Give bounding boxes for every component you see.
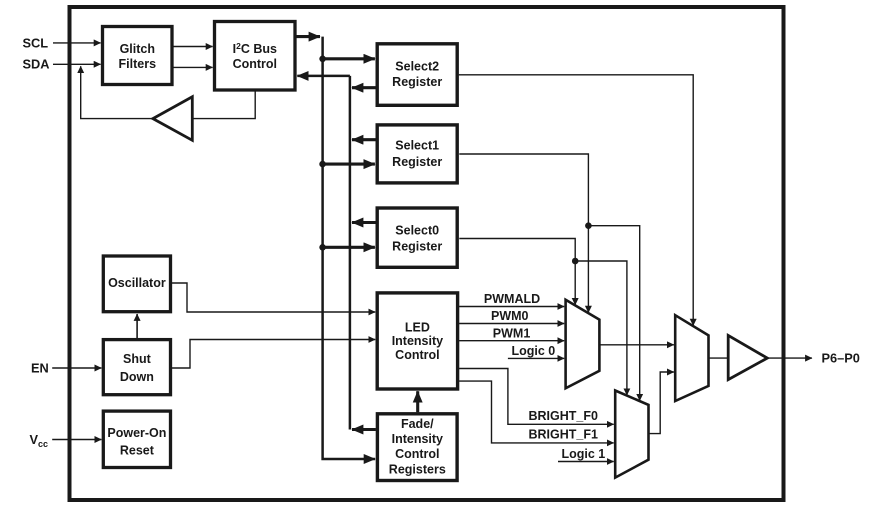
- wire buffer to SDA line: [81, 66, 153, 118]
- svg-text:Filters: Filters: [119, 57, 157, 71]
- svg-text:Shut: Shut: [123, 352, 152, 366]
- svg-text:LED: LED: [405, 320, 430, 334]
- wire Select1 branch to mux2: [588, 226, 639, 401]
- wire bus2 into I2C: [297, 75, 350, 78]
- block Shut Down: [103, 340, 170, 395]
- wire mux2 to mux3: [649, 372, 674, 434]
- wire BRIGHT_F1: [459, 381, 614, 443]
- block Power-On Reset: [103, 411, 170, 467]
- output buffer: [728, 335, 767, 379]
- node P6-P0 label: [822, 351, 860, 366]
- wire Oscillator to LED Intensity: [172, 283, 375, 312]
- svg-text:Fade/: Fade/: [401, 417, 434, 431]
- mux2 (brightness select): [615, 391, 648, 478]
- svg-text:Reset: Reset: [120, 443, 155, 457]
- node BRIGHT_F1 label: [529, 428, 599, 442]
- wire SDA input: [53, 63, 101, 65]
- svg-text:Glitch: Glitch: [120, 42, 155, 56]
- svg-text:Select1: Select1: [395, 138, 439, 152]
- wire Select0 branch to mux2: [575, 261, 627, 395]
- wire Select0 to bus2: [352, 221, 376, 224]
- svg-text:PWM0: PWM0: [491, 309, 529, 323]
- svg-text:P6–P0: P6–P0: [822, 351, 860, 366]
- node Logic 1 label: [562, 447, 606, 461]
- wire output to P6-P0: [767, 357, 812, 359]
- wire bus1 to Select1: [323, 163, 375, 166]
- block Select1 Register: [377, 125, 457, 183]
- svg-text:Control: Control: [233, 57, 277, 71]
- svg-text:Intensity: Intensity: [392, 334, 443, 348]
- block Select0 Register: [377, 208, 457, 267]
- block Fade Intensity Control Registers: [377, 414, 457, 481]
- wire Select0 to mux1: [459, 239, 575, 305]
- wire bus1 vertical + into Fade registers: [323, 37, 376, 459]
- block I2C Bus Control: [215, 22, 296, 91]
- node SDA label: [23, 57, 50, 72]
- wire I2C out to bus1: [297, 35, 321, 38]
- mux1 (PWM select): [566, 300, 600, 389]
- wire Select1 to bus2: [352, 138, 376, 141]
- wire Glitch to I2C (SDA): [174, 66, 213, 68]
- block LED Intensity Control: [377, 293, 457, 389]
- node PWMALD label: [484, 292, 540, 306]
- wire Logic 1: [558, 461, 614, 463]
- wire PWM0: [459, 323, 564, 325]
- wire bus1 to Select0: [323, 246, 375, 249]
- svg-text:PWM1: PWM1: [493, 326, 531, 340]
- svg-text:Control: Control: [395, 348, 439, 362]
- svg-text:Oscillator: Oscillator: [108, 276, 166, 290]
- wire Select2 to bus2: [352, 86, 376, 89]
- node junction dot bus1/Select0: [319, 244, 326, 251]
- block Select2 Register: [377, 44, 457, 106]
- wire PWM1: [459, 340, 564, 342]
- node SCL label: [23, 35, 49, 50]
- svg-text:PWMALD: PWMALD: [484, 292, 540, 306]
- node junction dot Select0 branch: [572, 258, 579, 265]
- wire EN input: [52, 367, 101, 369]
- wire Logic 0: [508, 357, 564, 359]
- svg-text:Select2: Select2: [395, 59, 439, 73]
- outer chip border: [70, 7, 784, 500]
- wire bus2 vertical: [349, 76, 352, 430]
- wire Shut Down to Oscillator: [136, 314, 138, 338]
- wire bus1 to Select2: [323, 57, 375, 60]
- svg-text:Logic 0: Logic 0: [512, 344, 556, 358]
- wire Vcc input: [52, 439, 101, 441]
- wire Glitch to I2C (SCL): [174, 46, 213, 48]
- buffer (SDA feedback): [153, 97, 192, 141]
- svg-text:Select0: Select0: [395, 223, 439, 237]
- node junction dot Select1 branch: [585, 222, 592, 229]
- wire mux1 to mux3: [599, 344, 674, 346]
- node PWM0 label: [491, 309, 529, 323]
- svg-text:EN: EN: [31, 360, 49, 375]
- wire Fade registers up to LED Intensity: [416, 391, 419, 412]
- svg-text:Down: Down: [120, 370, 154, 384]
- svg-text:BRIGHT_F0: BRIGHT_F0: [529, 409, 599, 423]
- svg-text:Logic 1: Logic 1: [562, 447, 606, 461]
- block Glitch Filters: [103, 27, 173, 85]
- node EN label: [31, 360, 49, 375]
- wire Shut Down to LED Intensity: [172, 340, 375, 369]
- svg-text:SDA: SDA: [23, 57, 50, 72]
- wire Select1 to mux1: [459, 154, 588, 313]
- node junction dot bus1/Select1: [319, 161, 326, 168]
- node BRIGHT_F0 label: [529, 409, 599, 423]
- svg-text:Register: Register: [392, 240, 442, 254]
- svg-text:Register: Register: [392, 155, 442, 169]
- wire mux3 to output buffer: [709, 357, 729, 359]
- wire BRIGHT_F0: [459, 369, 614, 425]
- wire Fade registers to bus2: [352, 428, 376, 431]
- svg-text:Power-On: Power-On: [107, 426, 166, 440]
- node junction dot bus1/Select2: [319, 56, 326, 63]
- wire SCL input: [53, 42, 101, 44]
- svg-text:Register: Register: [392, 75, 442, 89]
- svg-text:SCL: SCL: [23, 35, 49, 50]
- svg-text:Registers: Registers: [389, 462, 446, 476]
- wire I2C bottom to buffer: [194, 92, 256, 119]
- svg-text:Intensity: Intensity: [392, 432, 443, 446]
- node Logic 0 label: [512, 344, 556, 358]
- wire Select2 to mux3: [459, 75, 694, 326]
- block Oscillator: [103, 256, 170, 312]
- node Vcc label: [30, 432, 49, 449]
- node PWM1 label: [493, 326, 531, 340]
- svg-text:Control: Control: [395, 447, 439, 461]
- mux3 (output select): [675, 315, 708, 401]
- wire PWMALD: [459, 306, 564, 308]
- svg-text:BRIGHT_F1: BRIGHT_F1: [529, 428, 599, 442]
